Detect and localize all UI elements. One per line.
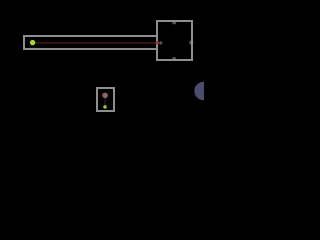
box U1 (large square chamber) (157, 21, 192, 60)
port bottom (box U1) (172, 57, 176, 61)
wire (red signal line inside channel) (33, 42, 158, 44)
port top (box U1) (172, 20, 176, 24)
node A (green ball in channel) (30, 40, 35, 45)
channel (long horizontal corridor) (24, 36, 157, 49)
pendulum bob (maroon ball) (102, 93, 108, 99)
port right (box U1) (189, 41, 193, 45)
port left inner socket (box U1) (159, 41, 162, 44)
node C (green dot at pendulum base) (103, 105, 107, 109)
half-disc (purple node at right edge) (194, 82, 212, 100)
small box (pendulum chamber) (97, 88, 114, 111)
node B (red connector dot on box left wall) (156, 41, 159, 44)
pendulum rod (small box) (104, 98, 106, 107)
